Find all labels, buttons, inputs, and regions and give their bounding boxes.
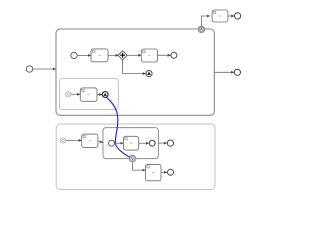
- parallel gateway G1: [118, 51, 127, 60]
- wire S0 to P1: [33, 68, 56, 70]
- task T7: [145, 164, 161, 180]
- wire G1 down to signal event: [123, 60, 146, 74]
- wire T3 to E2: [97, 94, 102, 96]
- end event E4: [234, 69, 240, 75]
- pool P2 (lower expanded box): [56, 124, 215, 190]
- task T2: [141, 49, 157, 62]
- boundary event B2 (bottom edge of P3): [129, 155, 136, 162]
- end event E5 (inside P3): [149, 140, 155, 146]
- wire S1 to T1: [77, 54, 91, 56]
- wire B2 to T7: [133, 162, 146, 170]
- start event S0 (far left): [26, 66, 32, 72]
- task T3: [80, 88, 97, 101]
- task T1: [91, 49, 108, 62]
- wire S2 to T3: [71, 93, 80, 95]
- task T5: [82, 134, 98, 147]
- end event E6: [167, 140, 173, 146]
- wire T7 to E7: [161, 171, 167, 173]
- wire T4 to E3: [228, 15, 234, 17]
- intermediate signal throw event IE1: [146, 71, 152, 77]
- end event E7: [168, 169, 174, 175]
- wire T6 to E5: [139, 142, 149, 144]
- wire T1 to G1: [108, 54, 119, 56]
- wire S3 to T5: [66, 139, 82, 141]
- end event E3: [235, 13, 241, 19]
- sub-process P3 (box inside lower pool): [103, 128, 158, 159]
- boundary event B1 (top edge of P1): [198, 26, 205, 33]
- wire P1 to E4: [214, 71, 234, 73]
- task T4: [212, 10, 228, 22]
- wire P3 to E6: [159, 142, 167, 144]
- end event E2 (escalation end): [102, 92, 108, 98]
- wire T2 to E1: [158, 54, 171, 56]
- wire S4 to T6: [115, 142, 124, 144]
- message flow MF1 (selected, blue curve): [106, 97, 131, 158]
- wire B1 to T4: [201, 16, 210, 26]
- start event S2 (event sub-process, non-interrupting): [66, 92, 71, 97]
- task T6: [123, 136, 138, 150]
- start event S4 (inside P3): [109, 140, 115, 146]
- event sub-process ES1 (dotted box inside P1): [60, 79, 119, 110]
- sub-process P1 (main expanded box): [56, 29, 214, 115]
- wire T5 to P3: [98, 141, 103, 143]
- start event S3 (lower pool, non-interrupting): [60, 138, 65, 143]
- wire G1 to T2: [127, 54, 141, 56]
- end event E1: [171, 52, 177, 58]
- start event S1 (top row): [71, 52, 77, 58]
